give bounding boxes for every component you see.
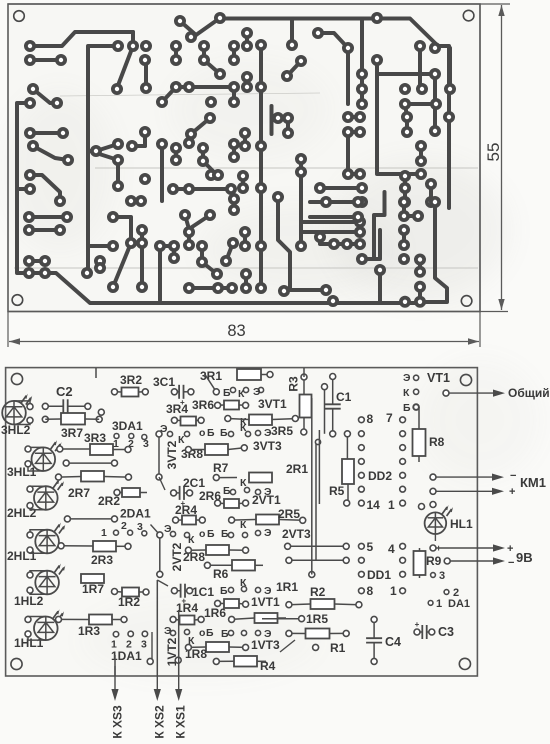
svg-text:R2: R2: [310, 585, 326, 599]
svg-text:+: +: [415, 620, 420, 629]
svg-text:Э: Э: [264, 527, 272, 539]
svg-text:К XS1: К XS1: [174, 705, 188, 739]
svg-text:+: +: [507, 543, 513, 555]
svg-text:+: +: [180, 499, 185, 508]
svg-text:8: 8: [367, 584, 374, 598]
svg-text:14: 14: [367, 498, 381, 512]
svg-text:К: К: [403, 387, 410, 399]
svg-text:R9: R9: [426, 554, 442, 568]
svg-text:55: 55: [484, 143, 503, 162]
svg-text:3DA1: 3DA1: [112, 419, 143, 433]
svg-text:HL1: HL1: [450, 517, 473, 531]
svg-text:Б: Б: [220, 427, 228, 439]
svg-text:C4: C4: [385, 635, 401, 649]
svg-text:2: 2: [121, 520, 127, 532]
svg-text:2DA1: 2DA1: [120, 507, 151, 521]
svg-text:1: 1: [113, 438, 119, 450]
svg-text:1R1: 1R1: [276, 580, 298, 594]
svg-text:Б: Б: [207, 528, 215, 540]
svg-text:1: 1: [388, 498, 395, 512]
svg-text:Б: Б: [403, 402, 411, 414]
svg-text:R3: R3: [287, 376, 301, 392]
svg-text:2VT2: 2VT2: [170, 542, 184, 571]
svg-text:3HL1: 3HL1: [7, 465, 37, 479]
svg-text:3: 3: [439, 570, 445, 582]
svg-text:3R7: 3R7: [61, 426, 83, 440]
svg-text:3R1: 3R1: [200, 369, 222, 383]
svg-text:2R7: 2R7: [68, 486, 90, 500]
svg-text:о: о: [199, 627, 205, 639]
svg-text:Б: Б: [220, 585, 228, 597]
svg-text:1: 1: [390, 584, 397, 598]
svg-text:Б: Б: [207, 427, 215, 439]
svg-text:R7: R7: [213, 461, 229, 475]
svg-text:3R4: 3R4: [166, 402, 188, 416]
svg-text:1HL1: 1HL1: [14, 636, 44, 650]
svg-text:1C1: 1C1: [192, 585, 214, 599]
svg-text:3: 3: [141, 639, 147, 651]
svg-text:DD1: DD1: [367, 568, 391, 582]
svg-text:2R1: 2R1: [286, 462, 308, 476]
svg-text:1R6: 1R6: [204, 606, 226, 620]
svg-text:2VT3: 2VT3: [282, 527, 311, 541]
svg-text:9В: 9В: [516, 550, 533, 565]
svg-text:R5: R5: [329, 484, 345, 498]
svg-text:DD2: DD2: [368, 469, 392, 483]
svg-text:о: о: [199, 427, 205, 439]
svg-text:К: К: [238, 388, 245, 400]
svg-text:о: о: [199, 528, 205, 540]
svg-text:К: К: [240, 519, 247, 531]
svg-text:R8: R8: [429, 435, 445, 449]
svg-text:1: 1: [436, 598, 442, 610]
svg-text:C3: C3: [438, 625, 454, 639]
svg-text:3R3: 3R3: [84, 431, 106, 445]
svg-text:К XS2: К XS2: [153, 705, 167, 739]
svg-text:DA1: DA1: [448, 598, 470, 610]
svg-text:+: +: [181, 597, 186, 606]
svg-text:1R3: 1R3: [78, 624, 100, 638]
svg-text:3VT2: 3VT2: [165, 440, 179, 469]
svg-text:Общий: Общий: [508, 386, 550, 400]
svg-text:1VT3: 1VT3: [251, 638, 280, 652]
svg-text:VT1: VT1: [427, 371, 450, 385]
svg-text:Э: Э: [403, 372, 411, 384]
svg-text:Б: Б: [223, 387, 231, 399]
svg-text:1R7: 1R7: [82, 582, 104, 596]
svg-text:−: −: [508, 557, 514, 569]
svg-text:+: +: [509, 486, 515, 498]
svg-text:Э: Э: [264, 427, 272, 439]
svg-text:3C1: 3C1: [153, 375, 175, 389]
svg-text:+: +: [180, 398, 185, 407]
svg-text:3R6: 3R6: [192, 398, 214, 412]
svg-text:3R5: 3R5: [271, 424, 293, 438]
svg-text:R1: R1: [330, 641, 346, 655]
svg-text:2C1: 2C1: [183, 476, 205, 490]
svg-text:5: 5: [367, 540, 374, 554]
svg-text:8: 8: [367, 412, 374, 426]
svg-text:1R2: 1R2: [118, 595, 140, 609]
svg-text:3VT1: 3VT1: [258, 397, 287, 411]
svg-text:2R4: 2R4: [175, 503, 197, 517]
svg-text:К XS3: К XS3: [111, 705, 125, 739]
svg-text:4: 4: [388, 542, 395, 556]
svg-text:КМ1: КМ1: [520, 475, 546, 490]
svg-text:C2: C2: [56, 384, 73, 399]
svg-text:2R3: 2R3: [91, 553, 113, 567]
svg-text:К: К: [240, 416, 247, 428]
svg-text:3VT3: 3VT3: [253, 439, 282, 453]
svg-text:R6: R6: [213, 567, 229, 581]
svg-text:Б: Б: [206, 627, 214, 639]
svg-text:7: 7: [386, 411, 393, 425]
svg-text:1VT1: 1VT1: [251, 595, 280, 609]
svg-text:1R5: 1R5: [306, 612, 328, 626]
svg-text:3: 3: [143, 438, 149, 450]
svg-text:C1: C1: [336, 390, 352, 404]
svg-text:3R2: 3R2: [120, 373, 142, 387]
svg-text:К: К: [178, 434, 185, 446]
svg-text:−: −: [510, 470, 516, 482]
svg-text:1: 1: [101, 527, 107, 539]
svg-text:83: 83: [227, 322, 245, 340]
svg-text:1HL2: 1HL2: [14, 594, 44, 608]
svg-text:2VT1: 2VT1: [252, 493, 281, 507]
